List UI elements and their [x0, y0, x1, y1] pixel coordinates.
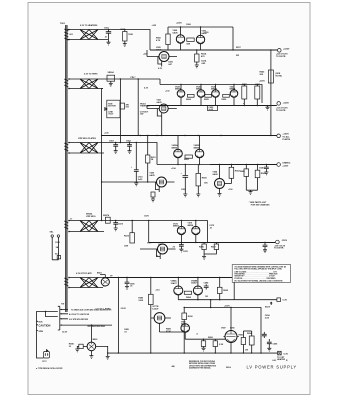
svg-text:1W: 1W	[245, 350, 248, 352]
svg-text:6BW4: 6BW4	[188, 224, 194, 227]
extra scan-density labels	[110, 23, 245, 278]
svg-text:+325V: +325V	[282, 166, 289, 168]
resistor R645 bleeder	[260, 70, 283, 83]
svg-text:CIRCUIT INFO SEE DISTRIBUTI: CIRCUIT INFO SEE DISTRIBUTION	[189, 365, 217, 367]
resistor R607 between tubes	[187, 38, 195, 46]
capacitor C637 tall	[255, 84, 261, 99]
svg-text:FOR S/N CHANGES: FOR S/N CHANGES	[251, 203, 270, 206]
thermal cutout TK601	[138, 78, 151, 135]
resistor R690	[182, 308, 194, 354]
resistor R659	[196, 165, 207, 197]
resistor R637 tall	[242, 84, 248, 99]
capacitor C694	[262, 314, 270, 338]
capacitor C676 below rail	[179, 243, 184, 253]
terminal 6.3V ELEV square	[265, 298, 288, 309]
rail y307	[184, 308, 261, 354]
resistor R680	[138, 278, 153, 354]
svg-text:+225V: +225V	[283, 48, 290, 50]
tube V684A	[171, 278, 183, 300]
wire W4 plate feed	[116, 221, 208, 243]
ground below R691	[202, 348, 206, 351]
misc value labels row1	[143, 24, 242, 66]
resistor between V625/V626	[205, 94, 212, 97]
transformer T601 primary bus (double vertical line)	[66, 25, 67, 312]
svg-text:LV POWER SUPPLY: LV POWER SUPPLY	[247, 364, 297, 369]
resistor R674	[124, 221, 135, 244]
ground below R614	[195, 65, 199, 68]
tube V684B	[191, 278, 202, 300]
primary winding hash marks near W4	[64, 221, 68, 229]
svg-text:6.3V HTR WDG RETURN: 6.3V HTR WDG RETURN	[69, 319, 89, 321]
svg-text:20K: 20K	[260, 74, 264, 76]
bottom rail	[108, 352, 278, 354]
tube V627	[230, 85, 238, 106]
svg-text:REFERENCE: FOR DECOUPLING: REFERENCE: FOR DECOUPLING	[189, 361, 216, 363]
resistor between V626/V627	[223, 94, 230, 97]
resistor R606	[156, 34, 170, 50]
svg-text:SR604: SR604	[108, 71, 115, 74]
resistor R692	[208, 337, 218, 353]
graticule lamp B602	[87, 339, 98, 351]
bleeder wire from +225 rail down	[270, 50, 272, 136]
pin D wire and text	[68, 324, 112, 328]
ground below lamp wire	[106, 356, 110, 359]
svg-text:ELEV: ELEV	[265, 307, 271, 309]
cathode rail row3	[157, 164, 221, 166]
primary winding hash marks near W3	[64, 143, 68, 151]
wire drop x207	[208, 221, 215, 243]
svg-text:POSITION . . . . . . . . . .: POSITION . . . . . . . . . . . . . . . .…	[234, 278, 276, 280]
svg-text:470K: 470K	[166, 330, 171, 333]
svg-text:6.3V: 6.3V	[284, 353, 289, 355]
resistor R664	[229, 165, 240, 184]
svg-text:6.3V TO HEATERS: 6.3V TO HEATERS	[80, 24, 98, 27]
primary winding hash marks near W1	[64, 29, 68, 40]
neon lamp B601	[97, 273, 109, 287]
tube V674	[173, 221, 185, 243]
ground shared R665/R666	[246, 190, 257, 194]
capacitor C652	[109, 141, 118, 151]
svg-text:12AU7: 12AU7	[152, 307, 159, 310]
secondary winding W3 (plate winding)	[68, 137, 113, 154]
tube V664	[213, 165, 232, 197]
rectifier SR674 inline box	[103, 214, 110, 223]
svg-text:T601: T601	[60, 23, 66, 25]
capacitor C653	[126, 141, 132, 154]
resistor R694	[247, 331, 254, 353]
wire from lamp	[96, 346, 108, 356]
secondary winding W1 (6.3V heater winding)	[67, 24, 108, 40]
series tube V609 6AU5	[147, 47, 177, 70]
misc value labels row4	[124, 246, 217, 258]
wire W1 top to rail	[108, 30, 150, 51]
misc value labels row3	[104, 133, 233, 192]
series tube V677A	[140, 243, 176, 260]
resistor R691	[201, 339, 205, 348]
resistor between V684A/B	[184, 291, 191, 294]
ground below lamp	[89, 351, 93, 359]
connector J601	[58, 304, 68, 331]
svg-text:100K: 100K	[138, 300, 143, 302]
electrolytic C659	[181, 165, 189, 197]
tube V675	[188, 221, 200, 243]
series tube V637	[147, 100, 177, 137]
box C639 below rail	[208, 106, 218, 111]
svg-text:GRN: GRN	[39, 331, 44, 333]
resistor between V624/V625	[188, 94, 195, 97]
row5 rail 6.3V	[103, 277, 234, 279]
svg-text:TO DISTR.: TO DISTR.	[276, 110, 286, 112]
tube V686	[181, 321, 190, 339]
resistor R688	[69, 344, 87, 350]
tube V606 6AU6	[173, 27, 185, 50]
svg-text:68K: 68K	[187, 44, 191, 46]
series tube V659	[101, 173, 175, 193]
ground below R688	[75, 349, 79, 352]
reference note block	[189, 361, 217, 370]
svg-text:MOTOR: MOTOR	[108, 106, 116, 108]
svg-text:THERMAL: THERMAL	[140, 105, 151, 108]
resistor R685	[217, 278, 228, 300]
wire plate bridge row4	[181, 220, 182, 221]
cathode bus row5	[178, 299, 276, 301]
svg-text:12.6V: 12.6V	[62, 332, 68, 334]
note asterisk	[249, 201, 270, 206]
svg-text:6AU6: 6AU6	[173, 32, 179, 35]
svg-text:HTR WDG: HTR WDG	[86, 216, 96, 218]
wire W3 plate feed	[114, 143, 157, 151]
resistor between V652A/B	[185, 155, 193, 158]
capacitor C684	[204, 281, 210, 289]
switch box SW601	[120, 103, 130, 109]
svg-text:135°: 135°	[140, 114, 144, 116]
terminal 6.3V CRT	[277, 351, 289, 361]
capacitor C645	[259, 165, 269, 175]
svg-text:HTR WDG PLATES: HTR WDG PLATES	[78, 137, 97, 140]
ground below F602	[109, 83, 113, 86]
svg-text:+325V: +325V	[176, 23, 183, 25]
svg-text:6AU5: 6AU5	[156, 48, 162, 51]
wire lamp drop	[90, 325, 92, 342]
terminal +100V	[277, 134, 291, 141]
terminal -150V	[274, 240, 288, 250]
resistor R693	[239, 331, 246, 353]
svg-text:6AU5: 6AU5	[157, 101, 163, 104]
junction node W1/R601	[124, 29, 125, 30]
svg-text:TRIGGERING . . . . . . . . .: TRIGGERING . . . . . . . . . . . . . . .…	[234, 274, 278, 276]
series tube V677B	[151, 306, 171, 332]
tube V607 6AU6	[196, 27, 207, 50]
capacitor C680	[125, 278, 136, 290]
capacitor C651	[131, 142, 143, 186]
svg-text:AB,: AB,	[172, 365, 176, 368]
resistor R665	[240, 165, 249, 191]
svg-text:VOLT: VOLT	[108, 114, 114, 116]
capacitor C674	[113, 221, 123, 231]
tube V625	[196, 85, 205, 106]
tube V626	[211, 85, 219, 106]
resistor R676 below rail	[202, 243, 206, 257]
svg-text:2.2K: 2.2K	[219, 344, 224, 346]
ground below C601	[107, 42, 111, 45]
capacitor C601	[104, 28, 111, 43]
wire y339	[160, 332, 226, 339]
wire heater drop	[119, 79, 121, 143]
svg-text:6.3V: 6.3V	[158, 68, 163, 70]
fuse box F602 on W2 heater wire	[107, 71, 115, 83]
resistor R601	[121, 29, 134, 44]
svg-text:HEATER: HEATER	[277, 358, 286, 361]
svg-text:SENSITIVITY . . . . . . . . .: SENSITIVITY . . . . . . . . . . . . . . …	[234, 276, 275, 278]
resistor R666	[255, 165, 266, 191]
svg-text:4.7K: 4.7K	[156, 39, 161, 42]
svg-text:UNREG: UNREG	[282, 163, 290, 165]
svg-text:12AU7: 12AU7	[191, 282, 198, 285]
svg-text:PIN 7: PIN 7	[131, 77, 137, 79]
+225V output rail	[150, 49, 278, 51]
wire W2 to heaters	[107, 78, 160, 80]
resistor R651	[146, 135, 157, 183]
secondary winding W4	[68, 213, 116, 233]
svg-text:6.3V HTR PLATE: 6.3V HTR PLATE	[76, 272, 92, 275]
junction +225 rail	[196, 49, 197, 50]
svg-text:BLK: BLK	[39, 321, 44, 323]
wire right drop row5	[233, 278, 235, 300]
svg-text:CAUTION: CAUTION	[39, 323, 51, 327]
svg-text:PLATES: PLATES	[282, 138, 290, 141]
+100V rail	[102, 135, 277, 137]
svg-text:6.3V: 6.3V	[144, 88, 149, 90]
svg-text:TO DISTR.: TO DISTR.	[274, 248, 284, 250]
-150V rail	[149, 242, 276, 244]
+225V unreg top rail	[168, 26, 233, 28]
svg-text:+100V: +100V	[282, 134, 289, 136]
svg-text:+225V: +225V	[259, 81, 266, 83]
terminal UNREG	[277, 163, 291, 168]
wire top rail drop right	[232, 27, 234, 50]
line cord wires	[37, 312, 58, 359]
misc value labels row2	[144, 81, 266, 101]
misc value labels bottom	[124, 329, 248, 352]
secondary winding W5 (6.3V lamp winding)	[68, 272, 103, 288]
vertical feed x118	[117, 278, 119, 354]
svg-text:5W: 5W	[236, 55, 239, 57]
svg-text:6AU6: 6AU6	[213, 173, 219, 176]
resistor below V659	[151, 192, 155, 202]
wire top rail drop left	[167, 27, 169, 34]
svg-text:15K: 15K	[204, 183, 208, 185]
svg-text:TO DISTR.: TO DISTR.	[276, 56, 286, 58]
svg-text:561A: 561A	[226, 366, 231, 369]
svg-text:150K: 150K	[128, 34, 133, 36]
tube V652B	[194, 136, 204, 165]
terminal +125V	[276, 102, 289, 112]
junction dots top rail	[180, 26, 181, 27]
power plug symbol	[42, 350, 50, 363]
primary winding hash marks near W5	[64, 278, 68, 286]
feed to regulator	[210, 300, 212, 308]
ground below R601	[123, 44, 127, 47]
+125 output rail	[147, 105, 277, 107]
svg-text:6AU5: 6AU5	[150, 174, 156, 177]
terminal +225V	[276, 48, 290, 58]
svg-text:117V: 117V	[42, 361, 47, 363]
primary winding hash marks near W2	[64, 79, 68, 87]
svg-text:6.3V: 6.3V	[283, 300, 288, 302]
misc value labels row5	[155, 290, 208, 299]
svg-text:1M: 1M	[205, 296, 208, 298]
junction dots row2 rail	[180, 84, 181, 85]
secondary winding W2	[68, 74, 107, 90]
svg-text:6.3V TO HTRS: 6.3V TO HTRS	[84, 74, 98, 76]
svg-text:SR674: SR674	[103, 214, 110, 217]
power tube V687	[221, 308, 239, 354]
resistor R614	[195, 50, 207, 65]
svg-text:T/N: T/N	[61, 304, 65, 306]
svg-text:12AU7: 12AU7	[171, 282, 178, 285]
svg-text:10W: 10W	[124, 246, 128, 248]
fan motor box B601	[105, 100, 120, 118]
resistor R677 below rail	[204, 243, 218, 255]
unreg rail row3	[210, 164, 277, 166]
tube V652A	[172, 136, 183, 165]
wire node to fan box	[102, 89, 103, 221]
svg-text:-150V: -150V	[281, 240, 287, 242]
svg-text:-12.6V: -12.6V	[120, 308, 127, 310]
capacitor C678 before terminal	[263, 243, 268, 253]
ground row4 center	[202, 257, 206, 260]
svg-text:+125V: +125V	[283, 102, 290, 104]
ground at +125 terminal	[266, 106, 270, 111]
tube V624	[175, 85, 185, 106]
junction node W1/C601	[108, 29, 109, 30]
capacitor C695	[267, 339, 278, 351]
ground below C652	[114, 151, 118, 154]
svg-text:NOTE): NOTE)	[276, 75, 283, 77]
+125 top rail	[160, 79, 262, 103]
